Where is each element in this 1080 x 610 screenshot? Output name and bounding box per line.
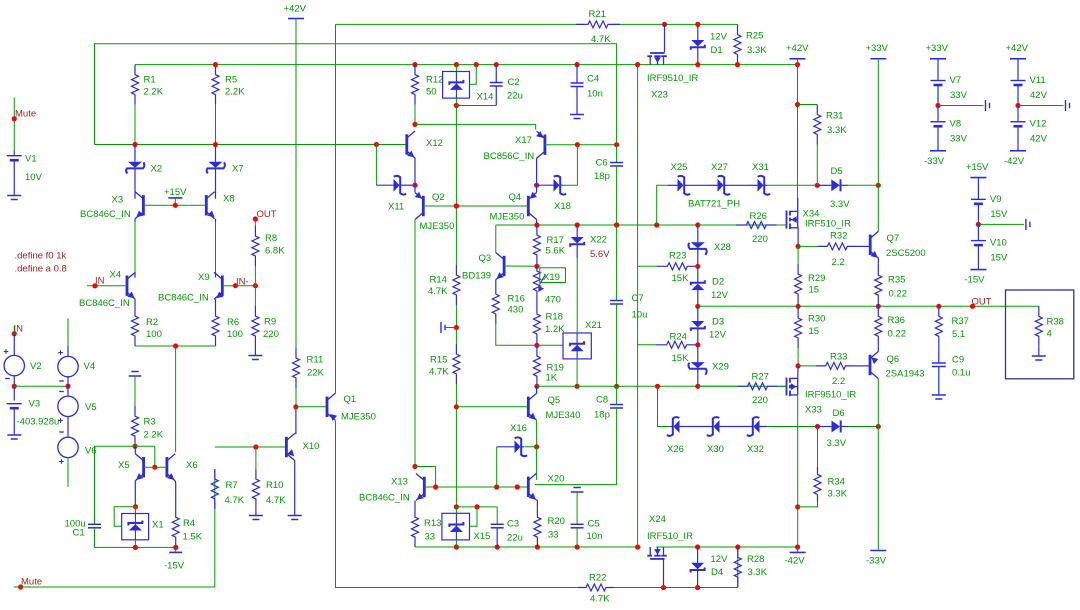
svg-text:IRF510_IR: IRF510_IR xyxy=(805,219,851,230)
svg-text:C4: C4 xyxy=(587,74,599,85)
svg-text:.define a 0.8: .define a 0.8 xyxy=(15,264,67,275)
svg-text:BC846C_IN: BC846C_IN xyxy=(158,293,209,304)
svg-text:10V: 10V xyxy=(25,172,43,183)
svg-text:5.6V: 5.6V xyxy=(590,249,610,260)
svg-text:C8: C8 xyxy=(596,395,608,406)
svg-text:R26: R26 xyxy=(750,211,767,222)
svg-text:BC846C_IN: BC846C_IN xyxy=(359,493,410,504)
svg-text:22u: 22u xyxy=(507,533,523,544)
svg-text:R5: R5 xyxy=(225,75,237,86)
svg-text:12V: 12V xyxy=(711,554,729,565)
svg-text:100: 100 xyxy=(227,329,243,340)
svg-text:R13: R13 xyxy=(424,518,441,529)
svg-text:X4: X4 xyxy=(110,270,122,281)
svg-text:R25: R25 xyxy=(746,31,763,42)
svg-text:33: 33 xyxy=(425,532,436,543)
svg-text:220: 220 xyxy=(752,234,768,245)
svg-text:5.6K: 5.6K xyxy=(546,246,566,257)
svg-text:D4: D4 xyxy=(711,567,723,578)
svg-text:4: 4 xyxy=(1047,329,1052,340)
svg-text:470: 470 xyxy=(545,295,561,306)
svg-text:15K: 15K xyxy=(672,353,690,364)
svg-text:Q4: Q4 xyxy=(509,192,522,203)
svg-text:V1: V1 xyxy=(25,154,37,165)
svg-text:R23: R23 xyxy=(669,251,686,262)
svg-text:R6: R6 xyxy=(227,317,239,328)
svg-text:+42V: +42V xyxy=(1006,43,1029,54)
svg-text:42V: 42V xyxy=(1030,134,1048,145)
svg-text:1.5K: 1.5K xyxy=(183,532,203,543)
svg-text:D6: D6 xyxy=(833,408,845,419)
svg-text:R15: R15 xyxy=(430,355,447,366)
svg-text:C3: C3 xyxy=(507,519,519,530)
svg-text:X11: X11 xyxy=(388,202,404,213)
svg-text:D1: D1 xyxy=(711,45,723,56)
svg-text:Q6: Q6 xyxy=(887,354,900,365)
svg-text:3.3K: 3.3K xyxy=(747,45,767,56)
svg-text:22K: 22K xyxy=(307,368,325,379)
svg-text:BAT721_PH: BAT721_PH xyxy=(688,199,740,210)
svg-text:+15V: +15V xyxy=(164,187,187,198)
svg-text:3.3K: 3.3K xyxy=(828,489,848,500)
svg-text:MJE350: MJE350 xyxy=(341,412,376,423)
svg-text:12V: 12V xyxy=(711,290,729,301)
svg-text:V8: V8 xyxy=(950,119,962,130)
svg-text:X16: X16 xyxy=(510,423,527,434)
svg-text:C1: C1 xyxy=(73,528,85,539)
svg-text:R34: R34 xyxy=(828,477,845,488)
svg-text:R9: R9 xyxy=(264,317,276,328)
svg-text:X31: X31 xyxy=(752,162,769,173)
svg-text:2SA1943: 2SA1943 xyxy=(886,369,925,380)
svg-text:R33: R33 xyxy=(830,352,847,363)
svg-text:R24: R24 xyxy=(670,332,687,343)
svg-text:MJE350: MJE350 xyxy=(490,212,525,223)
svg-text:X9: X9 xyxy=(198,272,210,283)
svg-text:V7: V7 xyxy=(950,75,962,86)
svg-text:X2: X2 xyxy=(151,164,163,175)
svg-text:R28: R28 xyxy=(747,554,764,565)
svg-text:V9: V9 xyxy=(990,194,1002,205)
svg-text:+33V: +33V xyxy=(866,43,889,54)
svg-text:4.7K: 4.7K xyxy=(266,495,286,506)
svg-text:R32: R32 xyxy=(830,231,847,242)
svg-text:220: 220 xyxy=(263,329,279,340)
svg-text:42V: 42V xyxy=(1030,90,1048,101)
svg-text:X13: X13 xyxy=(391,477,408,488)
svg-text:3.3K: 3.3K xyxy=(748,567,768,578)
svg-text:12V: 12V xyxy=(710,32,728,43)
svg-text:15V: 15V xyxy=(990,209,1008,220)
svg-text:X19: X19 xyxy=(543,272,560,283)
svg-text:2.2K: 2.2K xyxy=(144,430,164,441)
svg-text:33: 33 xyxy=(548,530,559,541)
svg-text:X32: X32 xyxy=(747,444,764,455)
svg-text:V2: V2 xyxy=(30,361,42,372)
svg-text:X18: X18 xyxy=(554,201,571,212)
svg-text:2.2K: 2.2K xyxy=(225,87,245,98)
svg-text:C2: C2 xyxy=(508,77,520,88)
svg-text:100: 100 xyxy=(146,329,162,340)
svg-text:R3: R3 xyxy=(144,417,156,428)
svg-text:X15: X15 xyxy=(474,531,491,542)
svg-text:X33: X33 xyxy=(805,405,822,416)
svg-text:5.1: 5.1 xyxy=(952,329,965,340)
svg-text:R21: R21 xyxy=(589,9,606,20)
svg-text:10n: 10n xyxy=(587,89,603,100)
svg-text:X1: X1 xyxy=(152,520,164,531)
svg-text:X23: X23 xyxy=(651,90,668,101)
svg-text:V12: V12 xyxy=(1030,119,1047,130)
svg-text:R20: R20 xyxy=(548,516,565,527)
svg-text:R1: R1 xyxy=(144,75,156,86)
svg-text:X12: X12 xyxy=(426,138,443,149)
svg-text:33V: 33V xyxy=(950,134,968,145)
svg-text:4.7K: 4.7K xyxy=(225,495,245,506)
svg-text:4.7K: 4.7K xyxy=(590,594,610,605)
svg-text:0.22: 0.22 xyxy=(889,289,908,300)
svg-text:6.8K: 6.8K xyxy=(265,246,285,257)
svg-text:X30: X30 xyxy=(707,444,724,455)
svg-text:D5: D5 xyxy=(831,166,843,177)
svg-text:V4: V4 xyxy=(84,361,96,372)
svg-text:X24: X24 xyxy=(649,514,666,525)
svg-text:Q1: Q1 xyxy=(344,394,357,405)
svg-text:X25: X25 xyxy=(671,162,688,173)
svg-text:2.2: 2.2 xyxy=(832,376,845,387)
svg-text:10n: 10n xyxy=(587,531,603,542)
svg-text:+42V: +42V xyxy=(786,43,809,54)
svg-text:R7: R7 xyxy=(226,480,238,491)
svg-text:X14: X14 xyxy=(477,92,494,103)
svg-text:BD139: BD139 xyxy=(462,271,491,282)
svg-text:R37: R37 xyxy=(952,316,969,327)
svg-text:X20: X20 xyxy=(548,474,565,485)
svg-text:Mute: Mute xyxy=(21,577,42,588)
svg-text:X27: X27 xyxy=(711,162,728,173)
svg-text:-33V: -33V xyxy=(924,156,945,167)
svg-text:10u: 10u xyxy=(632,310,648,321)
svg-text:2SC5200: 2SC5200 xyxy=(886,248,926,259)
svg-text:0.1u: 0.1u xyxy=(952,368,971,379)
svg-text:R35: R35 xyxy=(888,275,905,286)
svg-text:BC846C_IN: BC846C_IN xyxy=(80,209,131,220)
svg-text:R14: R14 xyxy=(430,275,447,286)
svg-text:R31: R31 xyxy=(826,111,843,122)
svg-text:-15V: -15V xyxy=(964,275,985,286)
svg-text:12V: 12V xyxy=(709,330,727,341)
svg-text:R29: R29 xyxy=(808,273,825,284)
svg-text:R11: R11 xyxy=(307,355,324,366)
svg-text:33V: 33V xyxy=(950,90,968,101)
svg-text:15: 15 xyxy=(809,326,820,337)
svg-text:R18: R18 xyxy=(546,312,563,323)
svg-text:4.7K: 4.7K xyxy=(429,367,449,378)
svg-text:MJE340: MJE340 xyxy=(546,410,581,421)
svg-text:18p: 18p xyxy=(594,171,610,182)
svg-text:X28: X28 xyxy=(714,242,731,253)
svg-text:-42V: -42V xyxy=(785,556,806,567)
svg-text:3.3V: 3.3V xyxy=(830,199,850,210)
svg-text:15V: 15V xyxy=(990,252,1008,263)
svg-text:2.2K: 2.2K xyxy=(144,87,164,98)
svg-text:15: 15 xyxy=(809,285,820,296)
svg-text:Mute: Mute xyxy=(15,109,36,120)
svg-text:+15V: +15V xyxy=(966,162,989,173)
svg-text:R22: R22 xyxy=(589,573,606,584)
svg-text:+33V: +33V xyxy=(926,43,949,54)
svg-text:IRF510_IR: IRF510_IR xyxy=(647,531,693,542)
svg-text:18p: 18p xyxy=(594,410,610,421)
svg-text:X6: X6 xyxy=(186,460,198,471)
svg-text:IRF9510_IR: IRF9510_IR xyxy=(805,390,856,401)
svg-text:.define f0 1k: .define f0 1k xyxy=(15,251,67,262)
svg-text:V5: V5 xyxy=(85,402,97,413)
svg-text:R16: R16 xyxy=(508,294,525,305)
svg-text:V11: V11 xyxy=(1030,75,1046,86)
svg-text:X3: X3 xyxy=(112,195,124,206)
svg-text:-15V: -15V xyxy=(164,561,185,572)
svg-text:220: 220 xyxy=(752,395,768,406)
svg-text:V10: V10 xyxy=(990,237,1007,248)
svg-text:MJE350: MJE350 xyxy=(420,221,455,232)
svg-text:V3: V3 xyxy=(29,399,41,410)
svg-text:R8: R8 xyxy=(265,233,277,244)
svg-text:15K: 15K xyxy=(672,273,690,284)
svg-text:X8: X8 xyxy=(223,194,235,205)
svg-text:R17: R17 xyxy=(547,235,564,246)
svg-text:X10: X10 xyxy=(303,441,320,452)
svg-text:Q7: Q7 xyxy=(887,233,900,244)
svg-text:+42V: +42V xyxy=(284,4,307,15)
svg-text:2.2: 2.2 xyxy=(832,257,845,268)
svg-text:D3: D3 xyxy=(712,317,724,328)
svg-text:0.22: 0.22 xyxy=(888,329,907,340)
svg-text:4.7K: 4.7K xyxy=(591,34,611,45)
svg-text:3.3K: 3.3K xyxy=(827,125,847,136)
svg-text:R4: R4 xyxy=(183,518,195,529)
svg-text:IRF9510_IR: IRF9510_IR xyxy=(647,73,698,84)
svg-text:X26: X26 xyxy=(667,444,684,455)
svg-text:X21: X21 xyxy=(585,320,602,331)
svg-text:Q5: Q5 xyxy=(548,395,561,406)
svg-text:R36: R36 xyxy=(888,315,905,326)
svg-text:D2: D2 xyxy=(712,277,724,288)
svg-text:C9: C9 xyxy=(952,355,964,366)
svg-text:R2: R2 xyxy=(146,317,158,328)
svg-text:X17: X17 xyxy=(515,135,532,146)
svg-text:R38: R38 xyxy=(1047,317,1064,328)
svg-text:C5: C5 xyxy=(588,519,600,530)
svg-text:C6: C6 xyxy=(596,158,608,169)
svg-text:Q2: Q2 xyxy=(432,192,445,203)
svg-text:22u: 22u xyxy=(507,91,523,102)
svg-text:R12: R12 xyxy=(426,75,443,86)
svg-text:3.3V: 3.3V xyxy=(827,438,847,449)
svg-text:BC846C_IN: BC846C_IN xyxy=(79,298,130,309)
svg-text:-33V: -33V xyxy=(866,556,887,567)
svg-text:430: 430 xyxy=(508,305,524,316)
svg-text:R10: R10 xyxy=(266,480,283,491)
svg-text:-42V: -42V xyxy=(1004,156,1025,167)
svg-text:BC856C_IN: BC856C_IN xyxy=(484,151,535,162)
svg-text:-403.928u: -403.928u xyxy=(17,417,60,428)
svg-text:X29: X29 xyxy=(712,362,729,373)
svg-text:OUT: OUT xyxy=(257,209,277,220)
svg-text:R30: R30 xyxy=(808,314,825,325)
svg-text:X22: X22 xyxy=(590,235,607,246)
svg-text:Q3: Q3 xyxy=(479,253,492,264)
svg-text:1.2K: 1.2K xyxy=(545,324,565,335)
svg-text:1K: 1K xyxy=(546,373,558,384)
svg-text:50: 50 xyxy=(426,87,437,98)
svg-text:4.7K: 4.7K xyxy=(428,286,448,297)
svg-text:OUT: OUT xyxy=(972,297,992,308)
svg-text:R27: R27 xyxy=(752,372,769,383)
svg-text:X5: X5 xyxy=(118,460,130,471)
svg-text:X7: X7 xyxy=(232,164,244,175)
